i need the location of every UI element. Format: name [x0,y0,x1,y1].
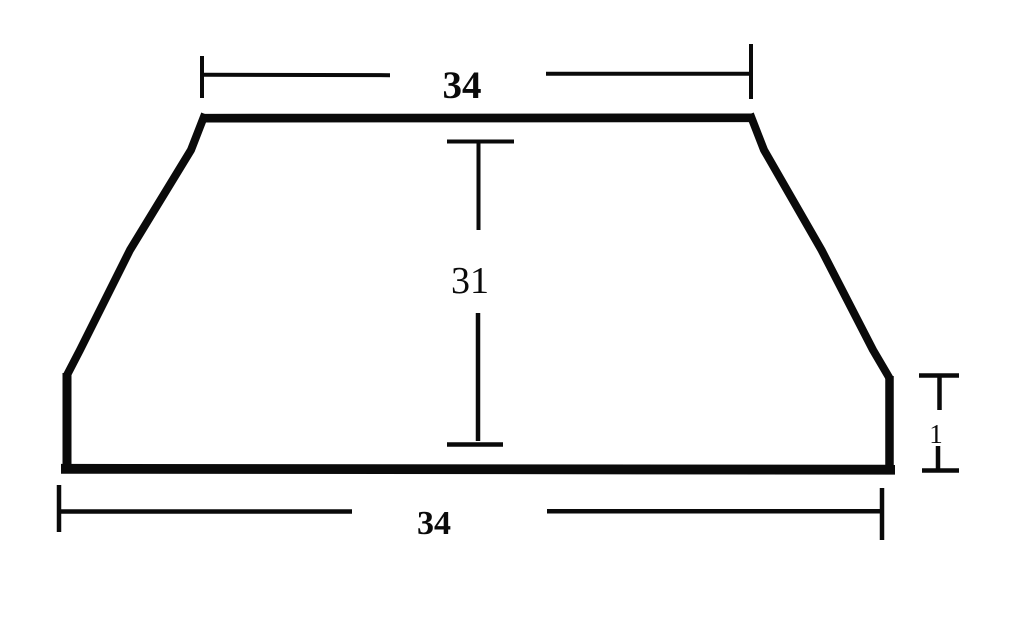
height dimension lower vertical [476,313,481,441]
top dimension left tick [200,56,204,98]
bottom dimension line left segment [61,509,352,514]
right small dimension lower vertical [936,446,941,469]
trapezoid left slant edge [66,114,205,377]
right small dimension top bar [919,373,959,378]
bottom dimension right tick [880,488,885,540]
height dimension upper vertical [477,143,481,230]
height dimension bottom bar [447,442,503,447]
trapezoid left vertical edge [63,373,72,469]
right small dimension bottom bar [922,468,959,473]
top dimension line right segment [546,72,750,76]
svg-text:34: 34 [417,505,451,542]
svg-text:34: 34 [443,64,482,107]
bottom dimension line right segment [547,509,880,514]
right small dimension upper vertical [937,377,942,410]
top dimension right tick [749,44,753,99]
top dimension line left segment [204,73,390,77]
height dimension top bar [447,140,514,144]
svg-text:1: 1 [929,419,943,449]
trapezoid bottom edge [61,464,895,475]
trapezoid right slant edge [750,114,890,379]
trapezoid right vertical edge [885,376,894,469]
bottom dimension left tick [57,485,62,532]
svg-text:31: 31 [451,260,489,302]
trapezoid top edge [201,113,753,122]
